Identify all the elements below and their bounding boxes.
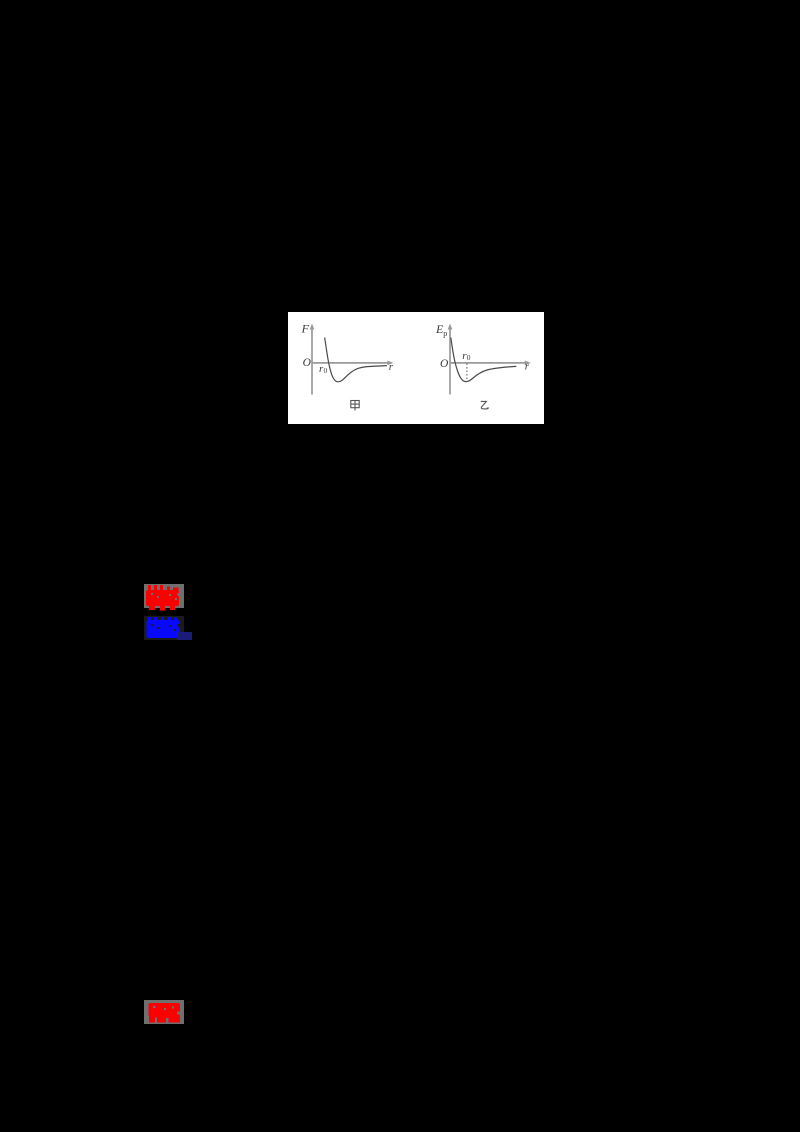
left graph: y-axis (F) — [312, 329, 389, 395]
svg-text:0: 0 — [467, 353, 471, 362]
right graph y-axis arrowhead — [448, 324, 453, 330]
answer tag 1 (red on grey) — [144, 584, 184, 608]
svg-text:O: O — [440, 358, 449, 370]
svg-text:O: O — [303, 357, 312, 369]
svg-text:p: p — [443, 329, 447, 338]
right graph x-axis arrowhead — [525, 361, 531, 366]
figure panel (white) with two graphs — [288, 312, 544, 424]
left graph caption 甲 — [351, 401, 359, 411]
right graph Ep-r curve — [451, 338, 517, 382]
left graph F-r curve — [325, 338, 387, 382]
svg-text:0: 0 — [324, 366, 328, 375]
analysis tag (blue on dark) — [144, 616, 184, 640]
svg-text:r: r — [525, 361, 530, 373]
navy selection block — [177, 632, 192, 640]
right graph: axes (Ep) — [450, 329, 526, 395]
right graph caption 乙 — [481, 401, 489, 409]
svg-text:r: r — [389, 361, 394, 373]
left graph y-axis arrowhead — [310, 324, 315, 330]
answer tag 2 (red on grey) — [144, 1000, 184, 1024]
svg-text:F: F — [301, 322, 310, 336]
right graph dotted line at r0 — [466, 364, 468, 382]
left graph x-axis arrowhead — [387, 361, 393, 366]
